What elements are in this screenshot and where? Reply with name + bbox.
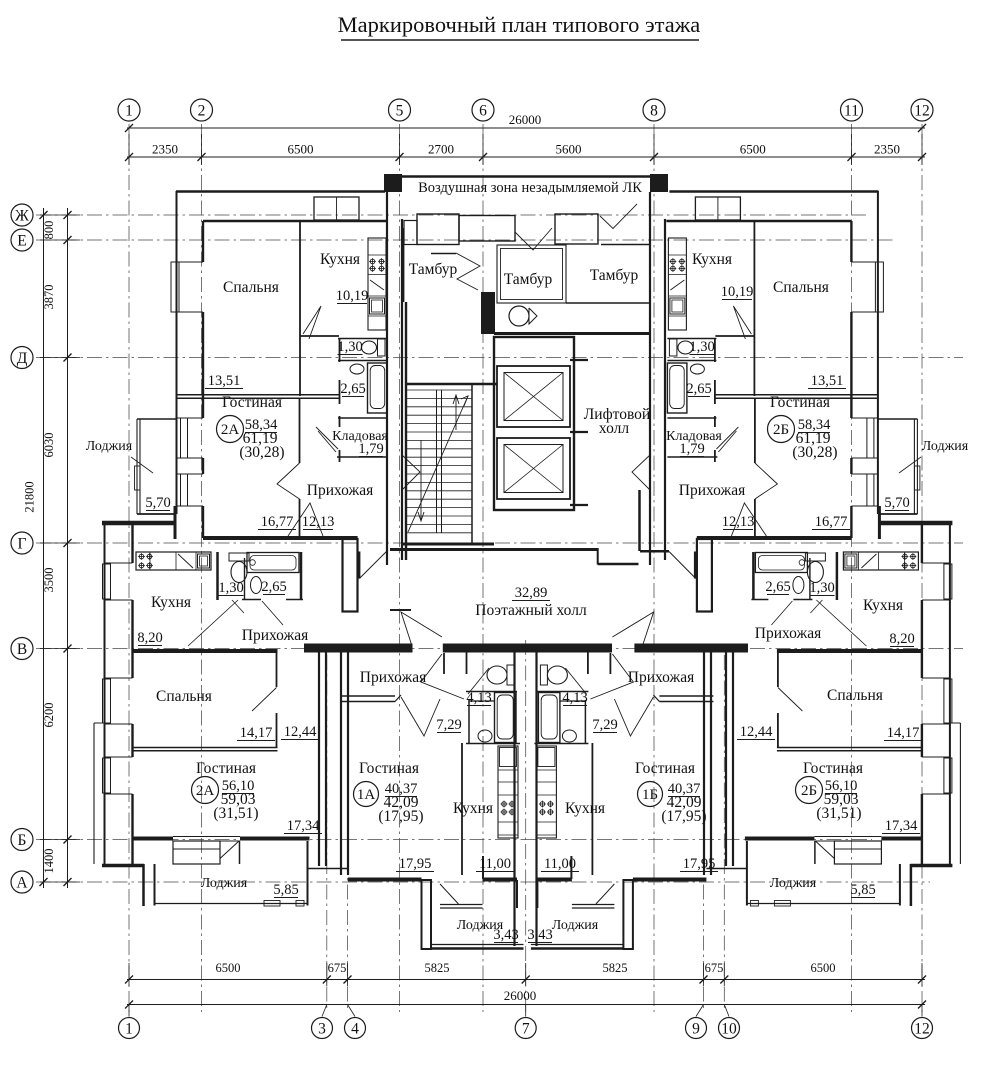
svg-text:Гостиная: Гостиная — [222, 394, 282, 411]
svg-text:7,29: 7,29 — [436, 717, 461, 733]
svg-text:Гостиная: Гостиная — [635, 760, 695, 777]
svg-text:А: А — [16, 875, 28, 892]
svg-text:5,85: 5,85 — [850, 882, 875, 898]
svg-text:11,00: 11,00 — [544, 856, 576, 872]
svg-text:26000: 26000 — [509, 112, 542, 127]
svg-text:16,77: 16,77 — [261, 514, 294, 530]
svg-text:Спальня: Спальня — [773, 279, 829, 296]
svg-text:10,19: 10,19 — [721, 284, 754, 300]
svg-text:5825: 5825 — [425, 961, 450, 975]
svg-text:Спальня: Спальня — [223, 279, 279, 296]
svg-text:1,79: 1,79 — [679, 441, 704, 457]
svg-text:5: 5 — [396, 103, 404, 120]
svg-text:3,43: 3,43 — [493, 927, 518, 943]
svg-text:Г: Г — [18, 536, 27, 553]
svg-text:(31,51): (31,51) — [213, 805, 258, 822]
svg-text:16,77: 16,77 — [815, 514, 848, 530]
svg-text:12,44: 12,44 — [740, 724, 773, 740]
svg-text:(17,95): (17,95) — [378, 808, 423, 825]
svg-text:17,34: 17,34 — [885, 818, 918, 834]
svg-text:32,89: 32,89 — [515, 585, 548, 601]
svg-text:2: 2 — [198, 103, 206, 120]
svg-text:Гостиная: Гостиная — [770, 394, 830, 411]
svg-text:Кухня: Кухня — [320, 251, 360, 268]
svg-text:8,20: 8,20 — [137, 630, 162, 646]
svg-text:Б: Б — [18, 832, 27, 849]
svg-text:Кухня: Кухня — [565, 800, 605, 817]
svg-text:8,20: 8,20 — [889, 631, 914, 647]
svg-text:Спальня: Спальня — [156, 688, 212, 705]
svg-text:17,95: 17,95 — [399, 856, 432, 872]
svg-text:Лоджия: Лоджия — [86, 439, 133, 454]
svg-text:Лоджия: Лоджия — [770, 876, 817, 891]
svg-text:2,65: 2,65 — [765, 579, 790, 595]
svg-text:4,13: 4,13 — [562, 690, 587, 706]
svg-text:12,13: 12,13 — [302, 514, 335, 530]
svg-text:Лоджия: Лоджия — [552, 918, 599, 933]
svg-text:Кухня: Кухня — [863, 597, 903, 614]
svg-text:Спальня: Спальня — [827, 687, 883, 704]
svg-text:Воздушная зона незадымляемой Л: Воздушная зона незадымляемой ЛК — [418, 180, 642, 196]
svg-text:8: 8 — [650, 103, 658, 120]
svg-text:12,44: 12,44 — [284, 724, 317, 740]
svg-text:5,85: 5,85 — [273, 882, 298, 898]
svg-text:4: 4 — [351, 1021, 359, 1038]
svg-text:Е: Е — [17, 233, 26, 250]
svg-text:1,30: 1,30 — [809, 580, 834, 596]
svg-text:Прихожая: Прихожая — [307, 482, 373, 499]
svg-text:4,13: 4,13 — [466, 690, 491, 706]
svg-text:Д: Д — [17, 350, 28, 367]
svg-text:Гостиная: Гостиная — [803, 760, 863, 777]
svg-text:Гостиная: Гостиная — [359, 760, 419, 777]
svg-text:6: 6 — [479, 103, 487, 120]
svg-text:675: 675 — [328, 961, 347, 975]
svg-text:(30,28): (30,28) — [239, 444, 284, 461]
svg-text:Прихожая: Прихожая — [679, 482, 745, 499]
svg-text:В: В — [17, 641, 27, 658]
svg-text:2700: 2700 — [428, 142, 454, 157]
svg-text:Прихожая: Прихожая — [242, 627, 308, 644]
svg-text:Тамбур: Тамбур — [590, 267, 639, 284]
svg-text:Тамбур: Тамбур — [504, 271, 553, 288]
svg-text:5600: 5600 — [556, 142, 582, 157]
svg-text:1Б: 1Б — [642, 787, 658, 803]
svg-text:1400: 1400 — [42, 849, 56, 874]
svg-text:3870: 3870 — [42, 285, 56, 310]
svg-text:12: 12 — [914, 1021, 930, 1038]
svg-text:17,34: 17,34 — [287, 818, 320, 834]
svg-text:1: 1 — [125, 1021, 133, 1038]
svg-text:12: 12 — [914, 103, 930, 120]
svg-text:1,79: 1,79 — [358, 441, 383, 457]
svg-text:2,65: 2,65 — [261, 579, 286, 595]
svg-text:6500: 6500 — [811, 961, 836, 975]
svg-text:2,65: 2,65 — [686, 381, 711, 397]
svg-text:14,17: 14,17 — [240, 725, 273, 741]
svg-text:Кухня: Кухня — [151, 594, 191, 611]
svg-text:675: 675 — [705, 961, 724, 975]
svg-text:21800: 21800 — [23, 481, 37, 512]
svg-text:Прихожая: Прихожая — [755, 625, 821, 642]
svg-text:Маркировочный план типового эт: Маркировочный план типового этажа — [338, 12, 701, 37]
svg-text:13,51: 13,51 — [208, 373, 241, 389]
svg-text:Прихожая: Прихожая — [628, 669, 694, 686]
svg-text:2Б: 2Б — [773, 422, 789, 438]
svg-text:6500: 6500 — [740, 142, 766, 157]
svg-text:800: 800 — [42, 221, 56, 240]
svg-text:1,30: 1,30 — [337, 339, 362, 355]
svg-text:2А: 2А — [196, 783, 215, 799]
svg-text:2Б: 2Б — [801, 783, 817, 799]
svg-text:2А: 2А — [221, 422, 240, 438]
svg-text:9: 9 — [692, 1021, 700, 1038]
svg-text:холл: холл — [599, 420, 629, 437]
svg-text:2,65: 2,65 — [340, 381, 365, 397]
svg-text:(31,51): (31,51) — [816, 805, 861, 822]
svg-text:1,30: 1,30 — [689, 339, 714, 355]
svg-text:1А: 1А — [357, 787, 376, 803]
svg-text:Прихожая: Прихожая — [360, 669, 426, 686]
svg-text:7,29: 7,29 — [592, 717, 617, 733]
svg-text:3: 3 — [318, 1021, 326, 1038]
svg-text:14,17: 14,17 — [887, 725, 920, 741]
svg-text:Ж: Ж — [15, 208, 29, 225]
svg-text:26000: 26000 — [504, 988, 537, 1003]
svg-text:10: 10 — [721, 1021, 737, 1038]
svg-text:6030: 6030 — [42, 433, 56, 458]
svg-text:Тамбур: Тамбур — [409, 261, 458, 278]
svg-text:17,95: 17,95 — [683, 856, 716, 872]
svg-text:2350: 2350 — [874, 142, 900, 157]
svg-text:7: 7 — [522, 1021, 530, 1038]
svg-text:1,30: 1,30 — [218, 580, 243, 596]
svg-text:Кухня: Кухня — [692, 251, 732, 268]
svg-text:2350: 2350 — [152, 142, 178, 157]
svg-text:6500: 6500 — [216, 961, 241, 975]
svg-text:5,70: 5,70 — [145, 495, 170, 511]
svg-text:Гостиная: Гостиная — [196, 760, 256, 777]
svg-text:12,13: 12,13 — [722, 514, 755, 530]
svg-text:6500: 6500 — [288, 142, 314, 157]
svg-text:Поэтажный холл: Поэтажный холл — [475, 602, 587, 619]
svg-text:Лоджия: Лоджия — [922, 439, 969, 454]
svg-text:(30,28): (30,28) — [792, 444, 837, 461]
svg-text:13,51: 13,51 — [811, 373, 844, 389]
svg-text:11: 11 — [844, 103, 859, 120]
svg-text:5825: 5825 — [603, 961, 628, 975]
svg-text:10,19: 10,19 — [336, 288, 369, 304]
svg-text:5,70: 5,70 — [884, 495, 909, 511]
svg-text:1: 1 — [125, 103, 133, 120]
svg-text:3,43: 3,43 — [527, 927, 552, 943]
svg-text:11,00: 11,00 — [479, 856, 511, 872]
svg-text:6200: 6200 — [42, 703, 56, 728]
svg-text:3500: 3500 — [42, 568, 56, 593]
svg-text:(17,95): (17,95) — [661, 808, 706, 825]
svg-text:Лоджия: Лоджия — [201, 876, 248, 891]
svg-text:Кухня: Кухня — [453, 800, 493, 817]
